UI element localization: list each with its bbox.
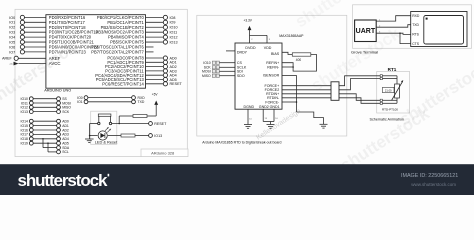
svg-text:SCK: SCK bbox=[62, 110, 70, 114]
svg-text:IO14: IO14 bbox=[21, 120, 28, 124]
svg-text:IO4: IO4 bbox=[9, 35, 15, 39]
svg-text:Arduino MAX31865 RTD to Digita: Arduino MAX31865 RTD to Digital Break-ou… bbox=[202, 140, 281, 144]
svg-text:SCL: SCL bbox=[62, 150, 69, 154]
svg-text:AD3: AD3 bbox=[62, 133, 69, 137]
svg-text:DVDD: DVDD bbox=[245, 46, 256, 50]
svg-text:AD0: AD0 bbox=[62, 120, 69, 124]
svg-text:MAX31865AAP: MAX31865AAP bbox=[279, 34, 304, 38]
svg-text:SDO: SDO bbox=[237, 74, 245, 78]
svg-text:MOSI: MOSI bbox=[202, 70, 211, 74]
svg-text:IO12: IO12 bbox=[170, 35, 178, 39]
svg-text:IO17: IO17 bbox=[21, 133, 28, 137]
svg-text:SDI: SDI bbox=[237, 70, 243, 74]
svg-text:UART: UART bbox=[356, 28, 376, 35]
svg-text:PC6/RESET/PCINT14: PC6/RESET/PCINT14 bbox=[102, 81, 144, 86]
svg-text:IO7: IO7 bbox=[9, 50, 15, 54]
svg-text:IO1: IO1 bbox=[77, 100, 83, 104]
svg-text:REFIN-: REFIN- bbox=[267, 65, 280, 69]
svg-text:AD4: AD4 bbox=[62, 137, 69, 141]
svg-text:IO5: IO5 bbox=[9, 40, 15, 44]
svg-text:IO10: IO10 bbox=[170, 26, 178, 30]
svg-text:FORCE-: FORCE- bbox=[265, 100, 280, 104]
svg-text:IO13: IO13 bbox=[170, 40, 178, 44]
svg-text:IO15: IO15 bbox=[21, 124, 28, 128]
svg-text:www.shutterstock.com: www.shutterstock.com bbox=[411, 182, 456, 187]
svg-text:DRDY: DRDY bbox=[237, 50, 248, 54]
svg-text:ISENSOR: ISENSOR bbox=[263, 74, 280, 78]
svg-text:IO13: IO13 bbox=[154, 134, 162, 138]
svg-text:IO10: IO10 bbox=[203, 61, 210, 65]
svg-text:IO3: IO3 bbox=[9, 31, 15, 35]
svg-text:IO13: IO13 bbox=[21, 110, 28, 114]
svg-text:IO11: IO11 bbox=[170, 31, 178, 35]
svg-text:GND2: GND2 bbox=[259, 105, 269, 109]
svg-text:ARduino 328: ARduino 328 bbox=[151, 151, 175, 156]
svg-text:IO16: IO16 bbox=[21, 128, 28, 132]
svg-text:CTS: CTS bbox=[412, 42, 420, 46]
svg-text:MISO: MISO bbox=[202, 74, 211, 78]
svg-text:IO9: IO9 bbox=[170, 21, 176, 25]
svg-text:RESET: RESET bbox=[170, 82, 183, 86]
svg-text:BIAS: BIAS bbox=[271, 52, 280, 56]
svg-text:shutterstock: shutterstock bbox=[18, 171, 108, 190]
svg-text:RT1: RT1 bbox=[388, 67, 397, 72]
svg-text:TXD: TXD bbox=[138, 100, 145, 104]
svg-text:RESET: RESET bbox=[154, 122, 167, 126]
svg-text:VDD: VDD bbox=[264, 46, 272, 50]
svg-text:IMAGE ID: 2250665121: IMAGE ID: 2250665121 bbox=[401, 173, 458, 179]
svg-text:RXD: RXD bbox=[412, 14, 420, 18]
svg-text:400: 400 bbox=[296, 58, 302, 62]
svg-text:IO18: IO18 bbox=[21, 137, 28, 141]
svg-text:IO6: IO6 bbox=[9, 45, 15, 49]
svg-text:ARDUINO UNO: ARDUINO UNO bbox=[44, 89, 71, 93]
svg-text:CS: CS bbox=[237, 61, 243, 65]
svg-text:DGND: DGND bbox=[244, 105, 255, 109]
svg-text:AD2: AD2 bbox=[62, 128, 69, 132]
svg-text:AREF: AREF bbox=[2, 57, 12, 61]
svg-text:IO19: IO19 bbox=[21, 142, 28, 146]
svg-text:IO1: IO1 bbox=[9, 21, 15, 25]
svg-text:+5v: +5v bbox=[9, 64, 12, 66]
svg-text:RTS: RTS bbox=[412, 33, 419, 37]
svg-text:AD5: AD5 bbox=[62, 142, 69, 146]
svg-text:21.00: 21.00 bbox=[385, 88, 392, 92]
svg-text:IO2: IO2 bbox=[9, 26, 15, 30]
svg-text:LED & Reset: LED & Reset bbox=[95, 139, 118, 144]
svg-text:AD1: AD1 bbox=[62, 124, 69, 128]
svg-text:+3.3V: +3.3V bbox=[244, 18, 253, 22]
svg-text:IO0: IO0 bbox=[9, 16, 15, 20]
svg-text:GND1: GND1 bbox=[270, 105, 280, 109]
svg-text:IO8: IO8 bbox=[170, 16, 176, 20]
svg-text:RTD-PT100: RTD-PT100 bbox=[382, 108, 398, 112]
svg-text:PB7/TOSC2/XTAL2/PCINT7: PB7/TOSC2/XTAL2/PCINT7 bbox=[91, 49, 144, 54]
svg-text:TXD: TXD bbox=[412, 23, 419, 27]
svg-text:+5V: +5V bbox=[152, 93, 159, 97]
